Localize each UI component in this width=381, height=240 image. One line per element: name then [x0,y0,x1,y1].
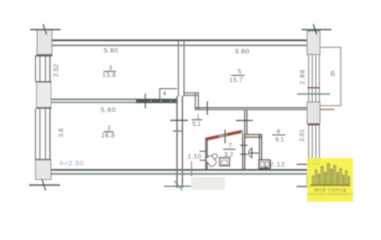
top-right break slash [313,24,317,35]
room5 step wall horizontal [183,92,199,94]
shaft right wall [259,134,260,169]
svg-text:Б: Б [331,71,336,78]
bathroom left wall [205,138,206,170]
svg-text:2.52: 2.52 [53,64,60,77]
svg-text:6.1: 6.1 [275,137,284,144]
svg-text:2.61: 2.61 [299,129,306,142]
svg-text:5.60: 5.60 [235,49,249,56]
hallway door tick teal [173,130,184,132]
line below kitchen wall [297,186,312,187]
bottom-left break slash [42,180,46,191]
top-left pillar [37,30,52,56]
svg-text:АГЕНТСТВО НЕДВИЖИМОСТИ: АГЕНТСТВО НЕДВИЖИМОСТИ [307,193,354,196]
hallway wall lower [176,96,178,188]
top-left break slash [43,24,47,35]
right sill line [297,164,321,166]
svg-text:3.8: 3.8 [58,128,65,137]
bathroom sink [220,158,230,166]
svg-text:6: 6 [277,128,281,135]
kitchen door tick [236,120,253,121]
svg-text:5.60: 5.60 [104,48,118,55]
logo yellow square [307,158,353,202]
corridor wall [195,107,308,108]
top-right cap line [302,29,332,31]
svg-text:5.60: 5.60 [101,107,116,114]
bathroom slanted wall red segment left [206,136,220,139]
door tick closet [145,94,146,109]
right window lower [308,124,309,166]
faint gray blob [191,177,225,190]
closet 4 box [160,89,177,100]
svg-text:2.12: 2.12 [270,162,286,169]
slant door tick [224,130,225,144]
wall rooms 3/5 upper [178,41,180,97]
svg-text:2.88: 2.88 [299,69,306,85]
right window red tick [308,87,321,89]
room5 step wall vertical [195,92,197,110]
svg-text:3: 3 [109,65,113,72]
svg-text:h=2.50: h=2.50 [60,161,84,168]
bathroom slanted wall red segment right [227,132,241,135]
svg-text:3.2: 3.2 [224,151,233,158]
left middle block [37,82,52,109]
balcony [320,47,341,105]
svg-text:2: 2 [107,125,111,132]
kitchen sink [259,160,270,168]
hallway wall break line green [164,186,191,187]
left window lower [35,109,36,161]
svg-text:4: 4 [163,91,167,98]
right middle pillar [307,102,320,124]
vent door symbol [249,148,252,157]
shaft top wall [246,134,262,138]
hallway wall break slash green [174,181,182,191]
wc wall tick lower [240,154,248,155]
svg-text:5: 5 [238,68,242,75]
right window upper [308,55,309,103]
bottom-left under line [29,184,60,186]
logo skyline light overlay [313,165,347,186]
corridor-kitchen divider [244,110,245,134]
left window upper [35,56,36,82]
svg-text:МОЙ ГОРОД: МОЙ ГОРОД [314,188,346,193]
interior wall dark segment [136,99,178,104]
bottom wall [50,169,308,171]
right window green line [297,93,330,95]
right lower red tick [308,124,321,126]
bathroom door tick [200,151,206,152]
wc left wall [242,134,243,170]
bottom-left pillar [36,159,52,161]
tan line right of pillar [320,109,335,111]
tick below 1.10 [191,161,192,177]
logo skyline [312,163,350,186]
interior wall rooms 3/2 [51,99,178,100]
corridor door tick [207,101,208,115]
svg-text:13.8: 13.8 [102,72,116,79]
top wall [50,39,308,41]
svg-text:5.1: 5.1 [192,121,201,128]
toilet [205,155,217,168]
top-right pillar [307,31,320,55]
svg-text:7: 7 [228,143,232,150]
logo baseline [311,184,351,186]
bathroom slanted wall base [206,131,243,139]
hallway door tick [170,120,188,122]
top-left cap line [30,29,61,31]
svg-text:1.10: 1.10 [187,153,201,160]
svg-text:15.7: 15.7 [229,77,243,84]
svg-text:16.8: 16.8 [101,133,115,140]
wc wall tick upper [240,145,248,146]
